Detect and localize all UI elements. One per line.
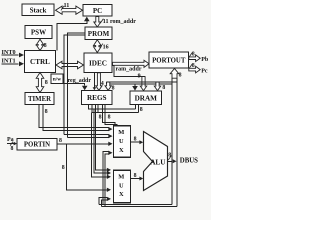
svg-text:PORTOUT: PORTOUT [152, 57, 186, 64]
bus IDEC to REGS 4 [96, 73, 102, 91]
op ALU [144, 132, 168, 191]
bus PC down to rom_addr [94, 17, 101, 28]
wire PROM bus to MUX1 input2 [64, 134, 109, 136]
svg-text:8: 8 [62, 165, 65, 171]
bus DBUS bottom rail [99, 204, 172, 206]
svg-text:PC: PC [93, 7, 102, 15]
wire rail branch to MUX2 in2 [94, 109, 107, 173]
wire PROM bus vertical pair [64, 35, 85, 135]
svg-text:REGS: REGS [87, 94, 107, 102]
svg-text:8: 8 [192, 51, 195, 57]
block n/w [51, 74, 63, 84]
svg-text:X: X [119, 191, 124, 198]
svg-text:Stack: Stack [30, 6, 47, 14]
svg-text:Pb: Pb [201, 57, 209, 63]
svg-text:8: 8 [45, 80, 48, 86]
wire REGS out rails [89, 105, 136, 109]
block TIMER [25, 93, 54, 105]
svg-text:PSW: PSW [31, 29, 46, 37]
wire ram_addr from IDEC to DRAM [113, 65, 146, 76]
svg-text:ram_addr: ram_addr [116, 67, 142, 73]
block IDEC [84, 53, 112, 73]
svg-text:TIMER: TIMER [28, 96, 51, 103]
bus writeback into DRAM 8 [154, 82, 160, 91]
svg-text:PROM: PROM [88, 30, 110, 38]
wire ALU output to DBUS 8 [168, 160, 173, 162]
wire IDEC reg select 4 [93, 73, 95, 88]
wire PORTIN branch down to MUX2 [66, 144, 107, 190]
wire writeback into DRAM [134, 84, 136, 86]
bus CTRL-TIMER 8 [36, 73, 44, 93]
block Stack [22, 4, 54, 16]
svg-text:rom_addr: rom_addr [110, 19, 136, 25]
svg-text:ALU: ALU [150, 159, 166, 167]
bus ram_addr into DRAM 9 [140, 77, 146, 91]
wire PORTOUT output Pb 8 [189, 55, 200, 62]
svg-text:DRAM: DRAM [135, 94, 158, 102]
svg-text:4: 4 [101, 81, 104, 87]
block DRAM [130, 91, 162, 105]
svg-text:8: 8 [11, 146, 14, 152]
svg-text:U: U [119, 138, 124, 145]
svg-text:IDEC: IDEC [89, 59, 107, 67]
svg-text:U: U [119, 182, 124, 189]
svg-text:8: 8 [162, 85, 165, 91]
wire INT1 into CTRL [2, 63, 19, 65]
svg-text:reg_addr: reg_addr [68, 78, 92, 84]
svg-text:DBUS: DBUS [180, 158, 198, 165]
svg-text:9: 9 [138, 73, 141, 79]
bus DBUS writeback to REGS 8 [106, 82, 108, 84]
wire DBUS writeback line B [110, 83, 172, 85]
svg-text:Pc: Pc [201, 68, 208, 74]
wire PORTOUT output Pc 8 [189, 66, 200, 73]
svg-text:8: 8 [108, 115, 111, 121]
wire bottom DBUS rail riser to MUX2 in5 [99, 198, 107, 205]
bus DBUS up into PORTOUT 8 [170, 69, 179, 79]
svg-text:M: M [118, 129, 124, 136]
block PORTIN [17, 139, 57, 151]
block PORTOUT [149, 52, 189, 68]
svg-text:8: 8 [140, 107, 143, 113]
bus CTRL-IDEC bidirectional [56, 61, 84, 69]
bus PROM-IDEC 16 [94, 40, 102, 53]
wire INT0 into CTRL [2, 54, 19, 56]
bus IDEC to PORTOUT [113, 60, 150, 67]
wire CTRL to PC load [57, 18, 87, 51]
bus DBUS vertical pair [171, 78, 173, 205]
svg-text:PORTIN: PORTIN [24, 142, 50, 149]
wire rail branch to MUX2 in3 [91, 113, 107, 177]
svg-text:8: 8 [168, 152, 171, 158]
block MUX2 [114, 170, 131, 203]
wire bottom DBUS rail riser to MUX1 in4 [103, 152, 109, 205]
wire reg_addr to REGS [63, 84, 85, 86]
block PC [83, 5, 112, 17]
block PROM [85, 27, 112, 40]
block CTRL [25, 51, 56, 73]
bus Stack-PC bidirectional 11 [56, 6, 83, 14]
wire REGS stub C select pair into MUX1 top [103, 105, 115, 126]
svg-text:8: 8 [59, 138, 62, 144]
svg-text:16: 16 [103, 44, 109, 50]
wire DBUS writeback line A [107, 81, 177, 83]
svg-text:X: X [119, 147, 124, 154]
svg-text:n/w: n/w [53, 77, 61, 83]
svg-text:CTRL: CTRL [30, 58, 50, 66]
svg-text:8: 8 [45, 109, 48, 115]
svg-text:M: M [118, 173, 124, 180]
svg-text:8: 8 [44, 43, 47, 49]
block PSW [25, 26, 52, 39]
svg-text:11: 11 [64, 2, 70, 9]
bus PSW-CTRL 8 [36, 39, 44, 50]
wire DRAM out stub 8 [134, 105, 136, 109]
svg-text:11: 11 [103, 19, 109, 25]
block MUX1 [114, 126, 131, 158]
label 11 rom_addr [100, 19, 103, 24]
svg-text:8: 8 [192, 63, 195, 69]
svg-text:8: 8 [99, 115, 102, 121]
block REGS [82, 91, 113, 105]
wire REGS stub B down to MUX2 in1 [95, 105, 107, 170]
svg-text:8: 8 [179, 72, 182, 78]
